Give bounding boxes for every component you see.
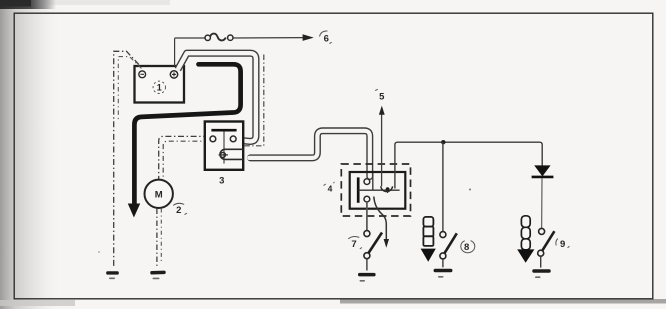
scan speck lower left (98, 251, 100, 253)
switch 9 (538, 228, 545, 256)
ground (switch 9) (532, 269, 550, 278)
wire: diode to switch 9 (541, 178, 543, 228)
switch 7 lever (369, 233, 382, 253)
dash-dot ground lead from battery - (114, 51, 139, 267)
label 5 (375, 89, 385, 102)
ground (motor) (150, 271, 166, 280)
valve unit inner body (350, 172, 406, 209)
svg-text:4: 4 (328, 183, 333, 193)
thick battery cable (+) C-shape with down arrow (134, 64, 240, 204)
drain arrowhead (384, 239, 389, 248)
relay 3 right terminal (230, 136, 236, 142)
stub from hollow wire into valve bar (372, 172, 374, 190)
wire to terminal 5 (vertical) (381, 115, 383, 187)
valve bottom terminal (364, 196, 370, 202)
arrow to 6 (303, 34, 314, 41)
switch 9 lever (542, 231, 554, 250)
diode cathode bar (532, 176, 554, 179)
wire: valve cup to distribution node (up and right) (395, 142, 542, 188)
dash-dot companion wire to relay 3 (245, 55, 264, 146)
arrowhead of thick cable (128, 204, 140, 218)
valve top terminal (364, 179, 370, 185)
valve cup stem (387, 189, 389, 193)
wire: node down to switch 8 (442, 142, 444, 231)
harness arrow (right, near switch 9) (517, 216, 534, 263)
valve cup dot (386, 187, 390, 191)
relay 3 left terminal (210, 136, 216, 142)
wire: valve bottom terminal to switch 7 (366, 202, 368, 231)
dash-dot ground lead inner stroke (118, 57, 141, 122)
dash-dot pair: motor to ground (right) (160, 209, 162, 265)
dash-dot pair: motor to ground (left) (156, 209, 158, 268)
switch 8 lever (445, 233, 457, 253)
label 2 (173, 203, 187, 216)
diode (to switch 9 branch) (534, 165, 550, 176)
svg-text:M: M (155, 190, 163, 201)
dash-dot pair: relay 3 to motor (inner) (163, 141, 209, 179)
switch 9 to ground (540, 256, 542, 267)
relay 3 contact cup (220, 149, 243, 159)
svg-text:2: 2 (176, 205, 181, 216)
valve cross line (358, 189, 399, 191)
fuse F (205, 34, 233, 41)
switch 7 (364, 231, 370, 259)
svg-text:9: 9 (560, 239, 565, 250)
motor M (component 2) (145, 180, 173, 208)
battery positive terminal (170, 71, 177, 78)
svg-text:5: 5 (379, 92, 385, 103)
hose curve with arrow (valve drain) (374, 197, 387, 240)
switch 8 (440, 232, 446, 259)
switch 8 to ground (442, 259, 444, 267)
battery negative terminal (139, 71, 146, 78)
valve cup contact (381, 186, 393, 191)
ground (battery) (106, 271, 119, 279)
battery B box (component 1) (135, 66, 185, 103)
scan speck near valve (469, 189, 471, 191)
hollow wire: relay 3 to valve 4 (S-run) (249, 131, 370, 177)
relay 3 armature line (223, 131, 225, 163)
ground (switch 7) (358, 273, 376, 282)
harness arrow (left, near switch 8) (421, 217, 436, 262)
switch 7 to ground (366, 259, 368, 271)
svg-text:1: 1 (157, 83, 162, 93)
relay 3 core bar (211, 129, 236, 132)
wire: fuse feed horizontal (175, 37, 206, 39)
hollow wire: battery + to relay 3 terminal (double outline) (178, 53, 256, 141)
ground (switch 8) (434, 269, 453, 278)
arrow to 5 (379, 106, 385, 115)
label 7 (348, 236, 362, 249)
label 8 (ringed) (461, 240, 475, 253)
relay 3 contact pin circle (219, 152, 228, 157)
relay box (component 3) (205, 122, 243, 170)
label 4 (324, 182, 335, 193)
svg-text:3: 3 (219, 176, 224, 187)
svg-text:6: 6 (324, 33, 329, 44)
junction node (441, 140, 445, 144)
label 6 (320, 31, 332, 44)
label 9 (556, 239, 570, 250)
svg-text:7: 7 (351, 239, 356, 250)
valve core bar (357, 177, 360, 202)
wire: battery + up to fuse (174, 38, 176, 66)
label 1 (dashed circle) (153, 81, 165, 93)
wire: fuse to terminal 6 arrow (233, 37, 304, 39)
dash-dot pair: relay 3 to motor (outer) (159, 136, 210, 179)
valve unit (component 4) dashed housing (341, 164, 410, 216)
